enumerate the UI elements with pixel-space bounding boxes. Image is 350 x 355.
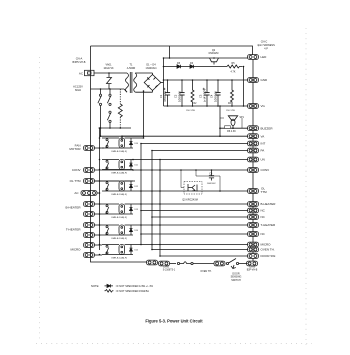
- svg-text:(+)47/50V: (+)47/50V: [202, 89, 206, 102]
- svg-text:OVEN TH.: OVEN TH.: [261, 248, 275, 252]
- svg-text:CN-A: CN-A: [76, 57, 83, 61]
- svg-text:OVEN TH.: OVEN TH.: [200, 270, 212, 273]
- svg-text:D12: D12: [135, 186, 138, 188]
- svg-text:MOTOR: MOTOR: [69, 147, 81, 151]
- svg-text:VG: VG: [261, 104, 266, 108]
- svg-text:Figure 5-3. Power Unit Circuit: Figure 5-3. Power Unit Circuit: [145, 318, 203, 323]
- svg-text:OMR-B-12A(LF): OMR-B-12A(LF): [111, 193, 127, 196]
- svg-text:100/16V: 100/16V: [177, 91, 181, 102]
- svg-text:310 12W: 310 12W: [186, 110, 196, 112]
- svg-text:60Hz: 60Hz: [75, 88, 82, 92]
- svg-text:S-2166TS-1: S-2166TS-1: [163, 270, 176, 272]
- svg-text:VA: VA: [261, 134, 265, 138]
- svg-text:B2P-VH-B: B2P-VH-B: [247, 270, 258, 272]
- svg-text:1N4003x4: 1N4003x4: [146, 67, 158, 70]
- svg-text:INT: INT: [261, 142, 266, 146]
- svg-text:10G471K: 10G471K: [103, 67, 114, 70]
- svg-text:310 12W: 310 12W: [226, 110, 236, 112]
- svg-text:OMR-B-12A(LF): OMR-B-12A(LF): [111, 256, 127, 259]
- svg-text:DOOR SW.: DOOR SW.: [261, 254, 277, 258]
- svg-text:OMR-B-12A(LF): OMR-B-12A(LF): [111, 216, 127, 219]
- svg-text:PA: PA: [261, 149, 265, 153]
- svg-text:CN-C: CN-C: [261, 40, 268, 44]
- svg-text:104F50V: 104F50V: [207, 183, 216, 185]
- svg-text:470/16V: 470/16V: [163, 91, 167, 102]
- svg-text:LED: LED: [261, 55, 268, 59]
- svg-text:AC125V: AC125V: [73, 85, 83, 89]
- svg-text:MICRO: MICRO: [71, 248, 82, 252]
- svg-text:CN-D: CN-D: [163, 265, 169, 268]
- svg-text:DSR12M: DSR12M: [209, 52, 219, 55]
- svg-text:OMR-B-12A(LF): OMR-B-12A(LF): [111, 171, 127, 174]
- svg-text:OMR-B-12A(LF): OMR-B-12A(LF): [111, 237, 127, 240]
- svg-text:CN-B: CN-B: [249, 265, 255, 268]
- svg-text:100/16V: 100/16V: [213, 91, 217, 102]
- svg-text:A-50DR: A-50DR: [127, 67, 136, 70]
- svg-text:BUZZER: BUZZER: [261, 126, 274, 130]
- svg-text:4 P: 4 P: [264, 48, 268, 51]
- svg-text:UN: UN: [261, 158, 265, 162]
- svg-text:MICRO: MICRO: [261, 243, 272, 247]
- svg-text:Q3 KRC243M: Q3 KRC243M: [182, 199, 198, 202]
- svg-text:: IF NOT SPECIFIED 1/4W +/- 3%: : IF NOT SPECIFIED 1/4W +/- 3%: [115, 285, 154, 288]
- svg-text:D14: D14: [135, 230, 138, 232]
- svg-text:D13: D13: [135, 209, 138, 211]
- svg-text:CONV: CONV: [261, 168, 270, 172]
- svg-text:D15: D15: [135, 250, 138, 252]
- svg-text:CONV: CONV: [72, 168, 81, 172]
- svg-text:GND: GND: [261, 78, 269, 82]
- svg-text:SP1: SP1: [240, 117, 245, 119]
- svg-text:4.7K: 4.7K: [231, 71, 236, 74]
- svg-text:T-HEATER: T-HEATER: [261, 223, 276, 227]
- svg-text:D11: D11: [135, 165, 138, 167]
- svg-text:T-HEATER: T-HEATER: [66, 228, 81, 232]
- svg-text:OL TTM: OL TTM: [70, 179, 81, 183]
- svg-text:TTM: TTM: [261, 190, 268, 194]
- svg-text:: IF NOT SPECIFIED 15Ω2/5A: : IF NOT SPECIFIED 15Ω2/5A: [115, 290, 149, 293]
- svg-text:OMR-B-12A(LF): OMR-B-12A(LF): [111, 150, 127, 153]
- svg-text:D10: D10: [135, 143, 138, 145]
- svg-text:B-HEATER: B-HEATER: [66, 206, 82, 210]
- svg-text:NOTE:: NOTE:: [91, 284, 99, 288]
- svg-text:B3P5-VH-B: B3P5-VH-B: [73, 61, 86, 64]
- svg-text:SWITCH: SWITCH: [231, 279, 241, 282]
- svg-text:R6 4.3K: R6 4.3K: [227, 130, 236, 133]
- svg-text:B-HEATER: B-HEATER: [261, 202, 277, 206]
